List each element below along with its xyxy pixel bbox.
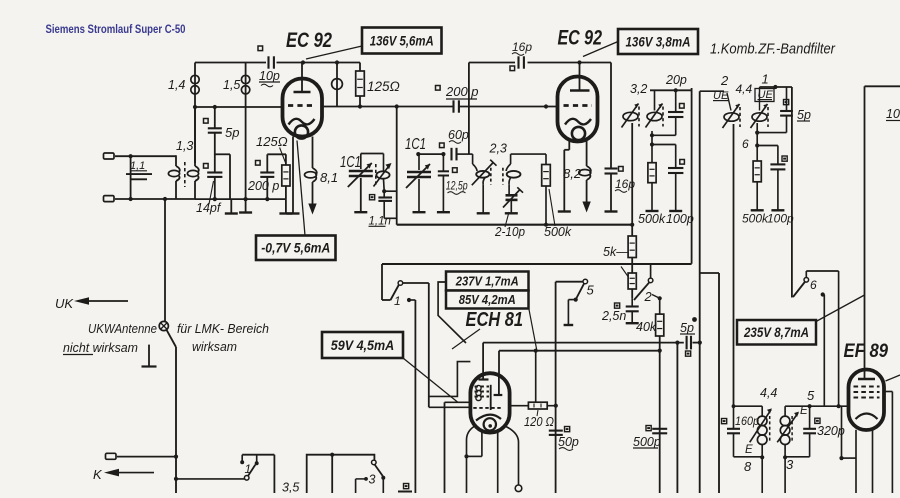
wire	[267, 153, 286, 155]
node	[773, 85, 777, 89]
node	[382, 189, 386, 193]
node	[658, 349, 662, 353]
label 2,3	[489, 142, 507, 156]
svg-text:500k: 500k	[638, 212, 666, 226]
wire	[784, 457, 786, 493]
label wirksam	[192, 339, 237, 354]
svg-text:8,1: 8,1	[320, 170, 338, 185]
svg-text:-0,7V 5,6mA: -0,7V 5,6mA	[261, 241, 330, 256]
leader box5	[403, 358, 458, 402]
svg-text:120 Ω: 120 Ω	[524, 414, 554, 429]
switch blade UKW	[167, 330, 177, 347]
tube U1 cathode	[289, 119, 315, 139]
ground 16p	[605, 210, 618, 212]
coil form	[307, 453, 375, 493]
tube U2 anode	[570, 63, 590, 91]
wire U3 bottom lead	[506, 427, 522, 492]
svg-text:136V 5,6mA: 136V 5,6mA	[370, 33, 434, 48]
arrow UK	[74, 297, 128, 305]
arrow AVC 2	[582, 202, 590, 213]
trimmer 2-10p	[503, 187, 523, 212]
coil if2 b	[780, 406, 790, 457]
transformer core	[184, 162, 186, 187]
ground	[751, 209, 764, 211]
trimmer 2,3 a	[472, 154, 497, 212]
wire U4 leads	[856, 430, 873, 493]
resistor 500k (bf1)	[648, 145, 656, 211]
svg-text:12,5p: 12,5p	[446, 179, 468, 193]
node	[213, 197, 217, 201]
svg-text:125Ω: 125Ω	[256, 134, 288, 149]
svg-text:237V 1,7mA: 237V 1,7mA	[455, 274, 519, 289]
switch 6	[793, 278, 825, 298]
trimmer bf2 b	[751, 87, 769, 128]
node	[755, 143, 759, 147]
svg-text:K: K	[93, 467, 103, 482]
label 1,1	[130, 160, 147, 172]
wire U4 anode out	[884, 392, 892, 494]
node	[577, 60, 581, 64]
tube U1 anode	[294, 63, 311, 93]
svg-text:20p: 20p	[665, 73, 687, 87]
node	[129, 197, 133, 201]
wire	[195, 62, 266, 64]
trimmer (osc 1st)	[374, 163, 392, 191]
svg-text:8,2: 8,2	[563, 166, 582, 181]
capacitor 200p (series)	[436, 84, 479, 113]
tube EF89 U4 envelope	[849, 370, 885, 431]
wire U2 cathode lead	[564, 141, 569, 212]
measurement box 136V 3,8mA	[618, 29, 698, 54]
tube U3 grid row	[473, 407, 502, 409]
resistor 500k (bf2)	[753, 146, 761, 210]
leader line EC92-1	[306, 46, 362, 59]
wire	[273, 455, 275, 493]
wire main down	[175, 347, 177, 493]
label fur LMK-Bereich	[177, 321, 269, 336]
ground	[771, 209, 784, 211]
svg-text:100p: 100p	[666, 212, 694, 226]
tube ECH81 U3 envelope	[470, 373, 509, 432]
ground stub	[279, 199, 292, 213]
ground U2 cathode	[558, 210, 571, 212]
svg-text:500p: 500p	[633, 435, 661, 449]
wire	[528, 62, 612, 64]
wire branch 719	[700, 273, 719, 493]
node	[244, 197, 248, 201]
ground	[646, 210, 659, 212]
wire grid bus left	[195, 106, 283, 108]
measurement box 85V 4,2mA	[446, 291, 529, 309]
svg-text:6: 6	[810, 278, 817, 292]
svg-text:UK: UK	[55, 296, 74, 311]
svg-text:2-10p: 2-10p	[494, 225, 525, 239]
wire bf1 right	[691, 88, 693, 264]
svg-text:EC 92: EC 92	[286, 28, 332, 52]
wire	[693, 342, 700, 344]
wire anode B	[499, 351, 660, 394]
leader line EC92-2	[583, 42, 618, 57]
ground 2-10p	[505, 212, 518, 214]
arrow K	[104, 469, 154, 477]
label 500k 100p	[638, 212, 694, 226]
svg-text:E: E	[745, 444, 753, 456]
svg-text:320p: 320p	[817, 424, 845, 438]
switch 3	[356, 460, 386, 493]
node	[464, 454, 468, 458]
tube U3 cathode	[476, 415, 501, 431]
svg-text:5p: 5p	[225, 125, 239, 140]
switch 1 (bottom)	[240, 455, 274, 480]
label 3	[786, 457, 794, 472]
wire osc row 2	[458, 153, 473, 155]
coil 1,5	[223, 63, 250, 108]
svg-text:6: 6	[742, 137, 749, 151]
wire osc row 3	[511, 153, 546, 155]
label 10p (frame3)	[886, 107, 900, 121]
label 1.Komb.ZF.-Bandfilter	[710, 42, 836, 58]
node	[265, 197, 269, 201]
capacitor 16p (anode)	[605, 63, 636, 212]
svg-text:200 p: 200 p	[247, 179, 279, 193]
ground 2,5n	[626, 322, 639, 324]
connector terminal	[104, 153, 115, 159]
tube U3 triode anode	[494, 375, 503, 395]
node	[416, 152, 420, 156]
node	[760, 455, 764, 459]
node	[174, 455, 178, 459]
wire	[117, 456, 176, 458]
svg-text:2: 2	[720, 73, 729, 88]
svg-text:10p: 10p	[259, 69, 280, 83]
wire U3 cathode center	[497, 429, 499, 493]
wire	[174, 477, 245, 481]
capacitor 320p	[803, 406, 845, 438]
ground 12,5p	[437, 211, 450, 213]
tube U3 heptode anode	[476, 375, 489, 401]
capacitor 12,5p	[438, 154, 468, 211]
capacitor 100p (bf1)	[668, 145, 684, 211]
label 4,4 (bf2)	[736, 82, 753, 96]
resistor 125Ω (2nd)	[256, 134, 290, 199]
tube U4 cathode	[856, 414, 878, 420]
tube EC92 U2 envelope	[558, 77, 598, 142]
node	[441, 152, 445, 156]
svg-text:8: 8	[744, 459, 752, 474]
wire	[214, 133, 216, 172]
label 6 (bf2)	[742, 137, 749, 151]
node	[213, 105, 217, 109]
wire	[277, 62, 361, 64]
measurement box 237V 1,7mA	[446, 272, 529, 291]
measurement box 136V 5,6mA	[362, 28, 442, 54]
svg-text:59V 4,5mA: 59V 4,5mA	[331, 337, 395, 353]
node	[544, 223, 548, 227]
capacitor 5p (series)	[680, 317, 697, 356]
svg-text:3: 3	[369, 473, 376, 487]
node	[407, 298, 411, 302]
leader box6	[816, 295, 865, 322]
label 500k 100p (bf2)	[742, 212, 794, 226]
wire	[384, 190, 397, 192]
node	[163, 197, 167, 201]
node coil junction	[335, 60, 339, 64]
wire	[838, 271, 840, 406]
node	[837, 404, 841, 408]
label 3,2	[630, 82, 647, 96]
label UK	[55, 296, 74, 311]
trimmer 3,2 a	[622, 104, 640, 128]
wire	[651, 131, 653, 145]
label 1,3	[176, 139, 193, 153]
wire	[115, 155, 176, 157]
wire drop 677	[675, 341, 679, 494]
node	[674, 88, 678, 92]
ground bus 2	[397, 224, 633, 226]
svg-text:1C1: 1C1	[405, 136, 426, 153]
svg-text:5p: 5p	[680, 321, 694, 335]
label K	[93, 467, 103, 482]
label nicht wirksam	[63, 340, 138, 355]
label E (if2a)	[745, 444, 753, 456]
transformer primary 1,3	[168, 155, 179, 199]
label 2-10p	[494, 212, 525, 239]
capacitor 160p	[722, 414, 760, 457]
trimmer 2,3 b	[503, 154, 521, 189]
wire bf1 top	[650, 89, 692, 91]
svg-text:1: 1	[762, 72, 769, 87]
measurement box 59V 4,5mA	[322, 332, 403, 358]
label EC 92 (2nd)	[558, 26, 603, 50]
wire box4 hook	[438, 282, 466, 343]
svg-text:Siemens Stromlauf Super C-50: Siemens Stromlauf Super C-50	[46, 22, 186, 36]
label ECH 81	[466, 309, 524, 331]
capacitor 2,5n	[601, 298, 639, 323]
wire bf2 left long	[699, 91, 701, 493]
wire U1 cathode lead	[292, 137, 294, 214]
connector terminal K	[106, 453, 117, 459]
wire switch5 drop	[555, 282, 557, 493]
ground	[669, 210, 682, 212]
svg-text:UKWAntenne: UKWAntenne	[88, 321, 157, 336]
trimmer bf2 a	[723, 93, 741, 406]
svg-text:85V 4,2mA: 85V 4,2mA	[459, 292, 516, 307]
ground coil 1,5	[239, 211, 252, 213]
wire	[806, 271, 838, 278]
svg-text:125Ω: 125Ω	[367, 79, 400, 94]
coil 8,2	[563, 141, 591, 203]
capacitor 500p (right)	[633, 426, 667, 450]
wire osc drop	[396, 107, 398, 225]
svg-text:16p: 16p	[512, 40, 532, 54]
wire branch	[215, 154, 230, 199]
coil 8,1	[305, 137, 339, 205]
title text	[46, 22, 186, 36]
coil (anode choke)	[332, 63, 343, 107]
svg-text:40k: 40k	[636, 320, 657, 334]
wire	[652, 134, 676, 136]
node	[193, 105, 197, 109]
svg-text:1: 1	[394, 294, 401, 308]
arrow coil if2	[750, 408, 772, 442]
svg-text:für LMK- Bereich: für LMK- Bereich	[177, 321, 269, 336]
wire stage1 return	[195, 198, 286, 200]
tube U4 grids	[854, 387, 880, 398]
svg-text:1,4: 1,4	[168, 78, 185, 92]
svg-text:1: 1	[245, 462, 252, 476]
capacitor 1,1n	[369, 191, 397, 227]
arrow AVC	[308, 204, 316, 215]
wire	[429, 283, 471, 407]
capacitor antenna	[126, 174, 152, 179]
label 4,4 (if2)	[760, 386, 777, 400]
wire cathode row EF89	[839, 406, 856, 460]
svg-text:100p: 100p	[767, 212, 794, 226]
wire 16p drop	[468, 63, 470, 155]
label EC 92 (1st)	[286, 28, 332, 52]
leader line to -0,7V box	[297, 141, 305, 236]
switch 5	[556, 279, 595, 325]
leader	[886, 375, 900, 381]
tuning cap 1C1 (2nd)	[405, 136, 431, 211]
svg-text:1,3: 1,3	[176, 139, 193, 153]
capacitor 60p (series)	[440, 128, 469, 160]
wire if2 left	[732, 404, 763, 428]
arrow coil if2 b	[777, 412, 799, 443]
label 5 (if2)	[807, 388, 815, 403]
svg-text:160p: 160p	[735, 414, 759, 428]
wire coil1,5 lower	[245, 107, 247, 212]
node	[698, 341, 702, 345]
node	[534, 349, 538, 353]
resistor 500k (osc)	[542, 154, 572, 239]
wire	[403, 282, 429, 284]
tube U2 grid	[564, 104, 593, 107]
node	[755, 131, 759, 135]
resistor 5k (2)	[628, 258, 636, 299]
svg-text:10: 10	[886, 107, 900, 121]
wire	[757, 145, 778, 147]
svg-text:60p: 60p	[448, 128, 469, 142]
coil if2 a	[757, 406, 767, 457]
svg-text:wirksam: wirksam	[192, 339, 237, 354]
svg-text:5k—: 5k—	[603, 245, 629, 259]
tube U2 cathode	[565, 119, 591, 140]
capacitor 16p (series top)	[510, 40, 532, 71]
resistor 120Ω	[510, 402, 556, 429]
tube U3 grids	[475, 385, 491, 410]
wire grid g1	[445, 402, 471, 493]
label E (if2b)	[800, 405, 808, 417]
node	[358, 104, 362, 108]
wire anode A	[483, 343, 684, 378]
leader ECH81	[452, 329, 480, 349]
wire if2 right	[785, 434, 810, 457]
coil 1,4	[168, 63, 199, 164]
wire	[823, 295, 825, 407]
label UKWAntenne	[88, 321, 157, 336]
wire	[535, 351, 537, 403]
svg-text:5: 5	[587, 283, 595, 298]
svg-text:1C1: 1C1	[340, 154, 361, 171]
node tube1 anode	[301, 60, 305, 64]
svg-text:200 p: 200 p	[445, 84, 479, 99]
label 5p (bf2)	[797, 108, 811, 122]
capacitor 10p (series)	[258, 46, 280, 87]
wire	[469, 62, 515, 64]
wire main row	[382, 263, 692, 265]
wire bf2 top right	[760, 86, 792, 88]
label 3,5	[282, 481, 299, 495]
svg-text:EC 92: EC 92	[558, 26, 603, 50]
wire	[734, 456, 763, 458]
tuning cap 1C1 (1st)	[340, 154, 373, 212]
svg-text:EF 89: EF 89	[844, 341, 889, 362]
switch 1 (top)	[382, 264, 403, 308]
wire frame3 left	[864, 86, 866, 370]
svg-text:1,5: 1,5	[223, 78, 240, 92]
svg-text:235V 8,7mA: 235V 8,7mA	[743, 325, 809, 340]
resistor 40k	[636, 298, 664, 336]
trimmer 3,2 b	[646, 90, 664, 127]
svg-text:50p: 50p	[558, 435, 579, 449]
node	[783, 455, 787, 459]
wire	[761, 457, 763, 493]
svg-text:4,4: 4,4	[736, 82, 753, 96]
ground 1C1-2	[413, 211, 426, 213]
svg-text:2,3: 2,3	[489, 142, 507, 156]
svg-text:500k: 500k	[742, 212, 769, 226]
svg-text:1.Komb.ZF.-Bandfilter: 1.Komb.ZF.-Bandfilter	[710, 42, 836, 58]
ground U1 cathode	[287, 212, 300, 214]
wire	[361, 154, 384, 171]
node	[650, 142, 654, 146]
transformer secondary	[187, 107, 198, 199]
wire grid z	[429, 362, 471, 397]
stub antenna	[142, 345, 157, 367]
wire osc row	[418, 153, 445, 155]
wire	[652, 295, 660, 299]
svg-text:nicht wirksam: nicht wirksam	[63, 340, 138, 355]
wire	[409, 300, 415, 493]
leader box4	[529, 310, 537, 351]
wire	[130, 156, 132, 199]
capacitor 20p	[665, 73, 687, 135]
capacitor 100p (bf2)	[770, 146, 787, 210]
wire	[115, 198, 195, 200]
node	[129, 154, 133, 158]
wire	[631, 123, 633, 225]
wire	[756, 123, 758, 146]
node	[554, 404, 558, 408]
svg-text:4,4: 4,4	[760, 386, 777, 400]
svg-text:500k: 500k	[544, 225, 572, 239]
wire grid EF89	[785, 405, 848, 407]
node	[650, 133, 654, 137]
capacitor 5p	[204, 107, 240, 140]
label EF 89	[844, 341, 889, 362]
svg-text:5: 5	[807, 388, 815, 403]
wire antenna down	[164, 199, 166, 322]
capacitor (bottom)	[398, 484, 412, 492]
tube U1 grid	[288, 104, 315, 107]
node	[395, 104, 399, 108]
antenna socket symbol	[159, 321, 168, 330]
wire	[460, 106, 558, 108]
wire frame3 top	[865, 85, 900, 87]
connector terminal	[104, 196, 115, 202]
capacitor 14pf	[196, 164, 222, 216]
